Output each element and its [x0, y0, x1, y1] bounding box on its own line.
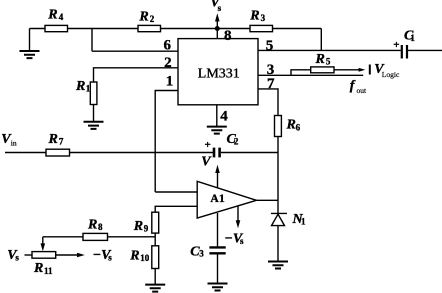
wire pin7 to R6: [258, 89, 278, 116]
diode N1: [271, 213, 287, 225]
ground G3 under pin4: [207, 127, 227, 134]
svg-text:f: f: [350, 78, 356, 93]
arrow R11 wiper: [41, 243, 46, 251]
svg-text:1: 1: [86, 83, 91, 93]
wire R8 rail: [43, 236, 155, 238]
resistor R3: [250, 25, 273, 31]
svg-text:9: 9: [144, 224, 149, 234]
svg-text:R: R: [75, 79, 85, 94]
label R6: [286, 118, 301, 133]
wire R9 R10 junction: [154, 233, 156, 246]
svg-text:s: s: [108, 252, 112, 262]
wire C1 right: [408, 49, 442, 51]
svg-text:in: in: [11, 139, 17, 148]
capacitor C2 plates: [214, 148, 220, 158]
wire R5 branch: [291, 70, 361, 76]
svg-text:1: 1: [219, 193, 225, 205]
resistor R2: [138, 25, 161, 31]
resistor R10: [152, 246, 159, 269]
wire pin3 fout: [258, 74, 363, 76]
svg-text:1: 1: [166, 74, 174, 90]
label R9: [133, 219, 149, 234]
ground G4 under C3: [208, 284, 228, 291]
arrow to Vs top: [215, 13, 220, 28]
svg-text:R: R: [249, 8, 259, 23]
resistor R8: [83, 233, 108, 240]
svg-text:6: 6: [164, 38, 172, 54]
wire R10 to ground: [154, 269, 156, 285]
wire A1 output: [256, 199, 278, 201]
svg-text:8: 8: [98, 222, 103, 232]
wire C2 right to R6 node: [221, 152, 278, 154]
label C3: [190, 244, 204, 259]
svg-text:6: 6: [296, 122, 301, 132]
label R8: [87, 217, 103, 232]
wire R11 right terminal: [56, 254, 79, 256]
svg-text:R: R: [48, 132, 58, 147]
svg-text:7: 7: [59, 137, 64, 147]
arrow to minus Vs right: [77, 253, 85, 258]
svg-text:R: R: [315, 52, 325, 67]
capacitor C3 plates: [209, 247, 225, 253]
svg-text:LM331: LM331: [198, 67, 240, 82]
wire pin5 to C1: [258, 49, 401, 51]
label Vin: [1, 132, 17, 148]
wire pin2 to R1: [94, 68, 179, 82]
label R11: [33, 261, 53, 276]
label R1: [75, 79, 91, 94]
pin label 6: [164, 38, 172, 54]
wire ground drop left: [29, 29, 31, 51]
ground G2 under R1: [84, 122, 104, 129]
wire C3 top: [217, 213, 219, 247]
wire Vin rail: [5, 152, 213, 154]
wire pin4 to ground: [216, 105, 218, 126]
svg-text:s: s: [240, 236, 244, 246]
resistor R7: [46, 149, 70, 156]
capacitor C1 plates: [402, 45, 407, 59]
arrow V at A1 plus supply: [215, 165, 220, 188]
label A1: [210, 193, 225, 205]
svg-text:10: 10: [140, 253, 150, 263]
svg-text:11: 11: [44, 266, 53, 276]
wire diode to ground: [277, 226, 279, 262]
arrow minus Vs at A1: [236, 206, 241, 229]
resistor R1: [90, 82, 97, 105]
label R3: [249, 8, 265, 23]
label Vs bottom: [7, 248, 19, 263]
svg-text:1: 1: [301, 216, 306, 226]
wire R6 to Vin rail: [277, 137, 279, 153]
wire pin1 vertical: [155, 91, 178, 193]
svg-text:7: 7: [267, 76, 275, 92]
terminal bar VLogic: [369, 65, 371, 75]
resistor R9: [152, 212, 159, 233]
pin label 5: [266, 38, 274, 54]
svg-text:+: +: [205, 139, 211, 151]
label Vs top: [210, 0, 221, 13]
svg-text:2: 2: [164, 55, 172, 71]
wire top supply rail: [30, 28, 322, 30]
svg-text:R: R: [87, 217, 97, 232]
wire pin8: [216, 29, 218, 39]
label R7: [48, 132, 64, 147]
label LM331: [198, 67, 240, 82]
potentiometer R11: [32, 252, 56, 259]
svg-text:R: R: [33, 261, 43, 276]
wire C3 to ground: [217, 254, 219, 284]
pin label 7: [267, 76, 275, 92]
svg-text:5: 5: [326, 57, 331, 67]
svg-text:Logic: Logic: [382, 70, 400, 79]
svg-text:4: 4: [220, 109, 228, 125]
svg-text:out: out: [357, 86, 368, 95]
ground G5 under N1: [268, 262, 288, 269]
wire R3 right drop: [320, 29, 322, 51]
pin label 1: [166, 74, 174, 90]
wire pin6 branch: [92, 29, 178, 52]
label plus C2: [205, 139, 211, 151]
svg-text:R: R: [138, 9, 148, 24]
label minus Vs at A1: [224, 232, 244, 247]
pin label 2: [164, 55, 172, 71]
node Vs junction dot: [215, 26, 220, 31]
svg-text:8: 8: [224, 28, 232, 44]
label R4: [47, 7, 63, 22]
label C2: [227, 132, 239, 147]
label R2: [138, 9, 154, 24]
svg-text:3: 3: [261, 13, 266, 23]
svg-text:+: +: [393, 39, 399, 51]
svg-text:R: R: [47, 7, 57, 22]
ground G6 under R10: [145, 285, 165, 292]
wire R8 to R11 wiper: [42, 237, 44, 245]
svg-text:1: 1: [410, 33, 415, 43]
label minus Vs bottom: [93, 248, 113, 263]
arrow to VLogic: [359, 68, 366, 72]
wire R11 left terminal: [25, 254, 33, 256]
label C1: [404, 28, 415, 43]
label N1: [292, 212, 307, 227]
label R5: [315, 52, 331, 67]
label V: [201, 155, 212, 170]
svg-text:R: R: [133, 219, 143, 234]
svg-text:5: 5: [266, 38, 274, 54]
resistor R4: [45, 25, 68, 31]
label VLogic: [374, 62, 400, 79]
svg-text:2: 2: [150, 14, 155, 24]
svg-text:R: R: [286, 118, 296, 133]
label R10: [129, 248, 150, 263]
svg-text:V: V: [201, 155, 212, 170]
resistor R6: [275, 116, 282, 137]
wire R1 to ground: [93, 105, 95, 122]
pin label 8: [224, 28, 232, 44]
wire R6 node down to diode: [277, 153, 279, 214]
svg-text:s: s: [218, 3, 222, 13]
wire A1 upper input: [155, 191, 197, 193]
label plus C1: [393, 39, 399, 51]
svg-text:4: 4: [59, 12, 64, 22]
svg-text:R: R: [129, 248, 139, 263]
IC U1 LM331 box: [178, 39, 258, 105]
resistor R5: [311, 67, 334, 73]
pin label 3: [267, 62, 275, 78]
svg-text:2: 2: [234, 137, 239, 147]
pin label 4: [220, 109, 228, 125]
ground G1 top-left: [20, 51, 40, 58]
svg-text:s: s: [15, 252, 19, 262]
wire A1 lower input: [155, 206, 197, 212]
label fout: [350, 78, 367, 95]
svg-text:3: 3: [199, 248, 204, 258]
op-amp A1 triangle: [197, 181, 256, 218]
